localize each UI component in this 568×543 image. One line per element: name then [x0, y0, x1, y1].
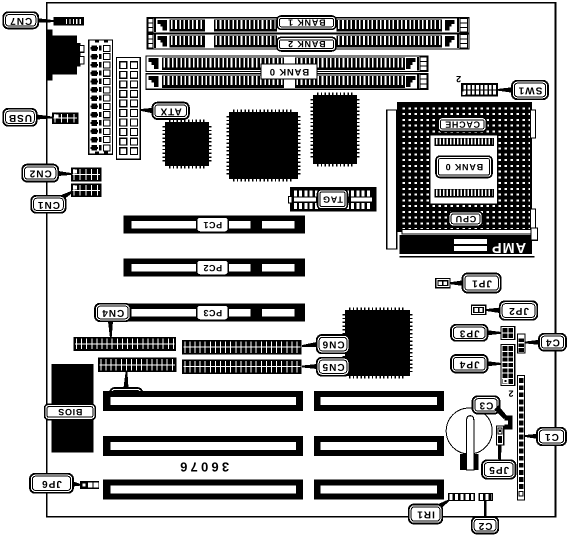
label SW1: [512, 81, 548, 99]
socket side bar: [387, 110, 397, 249]
ISA slot ISA3: [103, 480, 444, 500]
battery: [446, 408, 492, 470]
svg-text:CN6: CN6: [322, 339, 345, 350]
jumper JP1: [436, 279, 450, 288]
DIP switch SW1: [462, 84, 498, 97]
socket right tabs: [531, 110, 536, 138]
PCI slot PC1: [124, 216, 306, 234]
svg-text:JP5: JP5: [488, 464, 509, 475]
CPU socket (PGA): [397, 102, 532, 232]
ISA slot ISA2: [103, 436, 444, 456]
chip U4 (QFP): [344, 309, 411, 377]
connector CN7 header: [54, 18, 84, 25]
svg-text:ATX: ATX: [160, 105, 182, 116]
jumper JP3: [501, 327, 515, 340]
svg-text:BANK 0: BANK 0: [445, 162, 483, 172]
svg-text:BANK 1: BANK 1: [287, 18, 325, 28]
svg-text:2: 2: [456, 74, 461, 84]
label C1: [537, 428, 566, 445]
cache module top contacts: [435, 138, 495, 146]
label CN4: [95, 304, 131, 322]
jumper JP2: [472, 305, 486, 314]
connector CN1 header: [72, 184, 102, 197]
pointer ATX: [141, 108, 153, 113]
SIMM slot BANK 2: [147, 34, 469, 49]
pointer C2: [484, 501, 487, 517]
svg-text:CPU: CPU: [455, 214, 476, 224]
svg-text:PC1: PC1: [203, 220, 222, 230]
svg-text:TAG: TAG: [322, 194, 343, 204]
svg-text:USB: USB: [8, 112, 32, 123]
connector CN2 header: [72, 168, 102, 181]
pointer CN1: [62, 191, 73, 200]
label IR1: [409, 505, 443, 524]
cache module (white): [430, 135, 498, 205]
pointer CN7: [38, 18, 55, 22]
svg-text:CACHE: CACHE: [444, 119, 480, 129]
label ATX: [152, 103, 189, 119]
jumper JP5: [497, 426, 504, 445]
svg-text:CN5: CN5: [322, 361, 345, 372]
svg-text:CN2: CN2: [29, 168, 52, 179]
BIOS chip: [51, 364, 93, 452]
connector CN5: [182, 360, 301, 374]
chip U1 (QFP): [164, 121, 210, 167]
pointer C4: [525, 340, 539, 345]
SIMM slot BANK 1: [147, 18, 469, 33]
pointer C3: [494, 406, 507, 420]
label CPU: [449, 212, 483, 227]
svg-text:CN7: CN7: [9, 15, 32, 26]
AT power connector: [89, 40, 113, 154]
label CN7: [3, 12, 38, 28]
capacitor C3: [505, 416, 513, 430]
DIMM slot row 2 (BANK 0): [146, 74, 428, 90]
connector C2: [478, 493, 493, 501]
pointer CN3: [124, 372, 129, 388]
connector CN6: [182, 340, 301, 354]
svg-text:IR1: IR1: [416, 509, 435, 520]
svg-text:JP3: JP3: [459, 327, 480, 338]
pointer CN6: [302, 342, 317, 347]
svg-text:PC2: PC2: [203, 263, 222, 273]
PCI slot PC3: [124, 304, 306, 322]
svg-text:C2: C2: [478, 520, 493, 531]
pointer JP3: [488, 330, 502, 335]
label CN5: [317, 358, 350, 376]
label JP5: [482, 460, 516, 478]
pointer JP6: [73, 482, 80, 487]
ATX power connector: [116, 58, 140, 160]
pointer JP1: [450, 280, 462, 286]
svg-text:C3: C3: [479, 399, 494, 410]
label BANK 2: [277, 37, 336, 51]
svg-text:JP4: JP4: [459, 358, 480, 369]
svg-text:C1: C1: [544, 431, 559, 442]
label BANK 1: [277, 16, 336, 29]
svg-text:36076: 36076: [177, 460, 229, 475]
jumper JP6: [80, 481, 99, 489]
svg-text:BANK 2: BANK 2: [287, 39, 325, 49]
connector CN4: [74, 337, 176, 350]
label C3: [473, 396, 500, 413]
label BANK 0 (DIMM): [261, 64, 317, 79]
connector strip C1: [518, 376, 525, 501]
pointer C1: [525, 434, 537, 439]
label C4: [539, 334, 566, 351]
connector TAG: [289, 187, 377, 212]
svg-text:JP6: JP6: [41, 478, 62, 489]
header JP4: [501, 345, 515, 386]
svg-text:JP1: JP1: [471, 278, 492, 289]
connector CN3: [98, 358, 176, 372]
svg-text:CN4: CN4: [101, 307, 124, 318]
svg-text:PC3: PC3: [203, 308, 222, 318]
label C2: [472, 517, 499, 534]
svg-text:JP2: JP2: [508, 305, 529, 316]
pointer JP2: [486, 308, 500, 313]
label CN2: [22, 165, 58, 182]
pointer CN5: [302, 364, 317, 369]
chip U2 (QFP): [228, 111, 299, 180]
pointer JP5: [498, 445, 502, 460]
label BIOS: [45, 404, 95, 419]
svg-text:CN1: CN1: [37, 199, 60, 210]
svg-text:C4: C4: [545, 337, 560, 348]
label USB: [3, 109, 37, 126]
PCI slot PC2: [124, 259, 306, 277]
chip U3 (QFP): [312, 94, 358, 165]
ISA slot ISA1: [103, 391, 444, 411]
label JP2: [500, 301, 538, 320]
label CN6: [317, 335, 350, 353]
pointer USB: [37, 115, 53, 120]
label JP1: [462, 274, 500, 293]
pointer SW1: [498, 87, 512, 92]
svg-text:BIOS: BIOS: [58, 407, 83, 417]
label TAG: [318, 190, 348, 210]
svg-text:BANK 0: BANK 0: [269, 66, 309, 77]
svg-text:AMP: AMP: [491, 239, 526, 255]
label CN1: [31, 196, 65, 213]
keyboard connector: [47, 30, 84, 81]
connector USB header: [53, 113, 79, 124]
pointer JP4: [488, 361, 502, 366]
label JP4: [451, 355, 488, 373]
capacitor C4: [518, 334, 526, 353]
label JP6: [30, 474, 73, 493]
label CN3: [110, 388, 143, 406]
svg-text:2: 2: [508, 389, 513, 399]
pointer CN2: [58, 171, 71, 176]
AMP retention bar: [400, 228, 538, 257]
pointer CN4: [108, 321, 113, 337]
DIMM slot row 1 (BANK 0): [146, 56, 428, 72]
connector IR1: [448, 493, 475, 501]
label BANK 0 (cache): [436, 156, 492, 177]
label CACHE: [438, 117, 487, 131]
cache module bottom contacts: [435, 189, 495, 198]
svg-text:SW1: SW1: [518, 85, 543, 96]
label JP3: [451, 325, 488, 341]
pointer IR1: [439, 500, 449, 508]
